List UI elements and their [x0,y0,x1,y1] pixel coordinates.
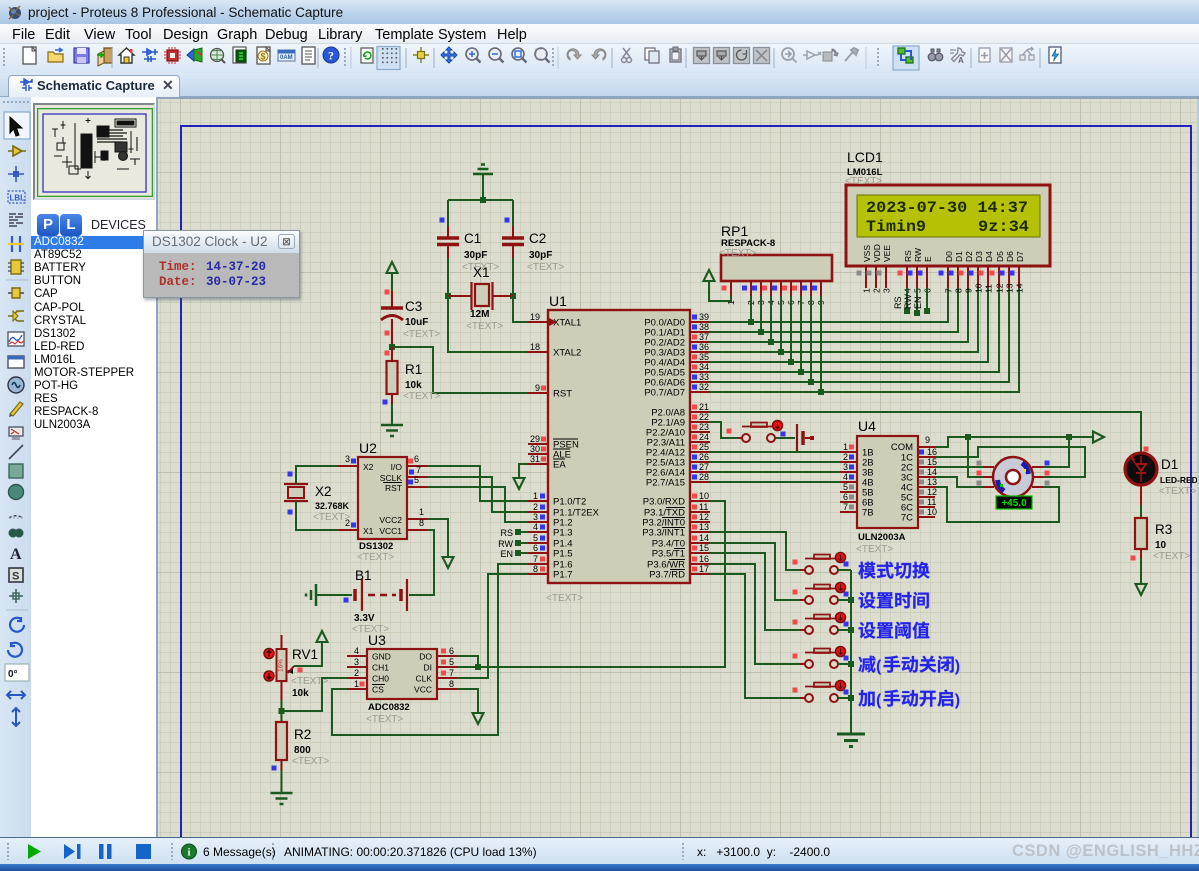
label 设置阈值 [859,622,930,639]
wire U1 P3.6 to button 4 [710,564,800,664]
svg-text:26: 26 [699,452,709,462]
svg-text:VCC2: VCC2 [379,515,402,525]
svg-text:13: 13 [1005,283,1015,293]
wire U2 I/O to U1 P1.0 [427,466,528,501]
svg-text:10: 10 [1155,540,1167,551]
svg-text:38: 38 [699,322,709,332]
wire C2 bottom to X1 row [512,258,514,296]
wire RV1 bottom node [281,700,283,722]
svg-text:P3.3/INT1: P3.3/INT1 [642,528,685,539]
svg-text:16: 16 [927,447,937,457]
svg-text:ULN2003A: ULN2003A [858,532,906,543]
wire crystal to U2.X1 [296,501,338,530]
svg-text:C3: C3 [405,299,422,314]
wire U3 DI to U1 P3.0 [457,501,725,667]
svg-text:36: 36 [699,342,709,352]
svg-text:0°: 0° [8,669,18,680]
wire P0.0 U1 to LCD D0 [710,288,948,322]
svg-text:U3: U3 [368,632,386,648]
object selector panel [31,97,158,837]
svg-text:RST: RST [553,389,572,400]
svg-text:R1: R1 [405,362,422,377]
svg-text:C1: C1 [464,231,481,246]
svg-text:3: 3 [882,288,892,293]
wire buttons common to ground [850,570,852,734]
capacitor C1 [437,218,499,274]
svg-text:$: $ [260,52,265,62]
node button common [848,627,854,633]
node RP1 pin4 drop [770,296,772,342]
svg-text:2: 2 [533,502,538,512]
node DO/DI [475,664,481,670]
arrow terminal COM rail [1093,432,1104,443]
node X1 left [445,293,451,299]
svg-text:X1: X1 [473,265,490,280]
svg-text:39: 39 [699,312,709,322]
svg-text:EN: EN [500,549,513,559]
svg-text:B1: B1 [355,568,372,583]
net RS stub (U1 P1.3) [500,528,528,538]
svg-text:12: 12 [995,283,1005,293]
svg-text:6: 6 [449,646,454,656]
svg-text:X1: X1 [363,526,374,536]
svg-text:32: 32 [699,382,709,392]
driver U4 (ULN2003A) [840,418,937,555]
sheet border [181,126,1191,871]
ground arrow U3 VCC [457,689,484,724]
wire X1 left to XTAL2 [448,296,528,352]
wire U3 CS to U1 P1.6 [332,564,528,735]
svg-text:P0.7/AD7: P0.7/AD7 [644,388,685,399]
svg-text:33: 33 [699,372,709,382]
svg-text:29: 29 [530,434,540,444]
svg-text:<TEXT>: <TEXT> [403,391,440,402]
svg-text:<TEXT>: <TEXT> [313,512,350,523]
svg-text:X2: X2 [363,462,374,472]
svg-text:RW: RW [498,539,513,549]
svg-text:4: 4 [843,472,848,482]
svg-text:11: 11 [984,284,994,293]
svg-text:5: 5 [414,475,419,485]
svg-text:10k: 10k [292,688,309,699]
toolbar [0,44,1199,73]
svg-text:2: 2 [354,668,359,678]
wire U4 1C to motor right-mid [935,447,1085,477]
svg-text:S: S [12,571,19,583]
power arrow RV1 wiper [294,631,328,666]
wire P0.4 U1 to LCD D4 [710,288,988,362]
svg-text:37: 37 [699,332,709,342]
wire U4 2C to motor left-top [935,466,983,468]
svg-text:1: 1 [862,288,872,293]
node X1 right [510,293,516,299]
svg-text:RS: RS [903,250,913,262]
svg-text:0AM: 0AM [280,55,293,61]
node RP1 pin7 drop [800,296,802,372]
wire P0.6 U1 to LCD D6 [710,288,1009,382]
svg-text:17: 17 [699,564,709,574]
node COM rail A [965,434,971,440]
svg-text:25: 25 [699,442,709,452]
svg-text:DO: DO [419,652,432,662]
svg-text:8: 8 [533,564,538,574]
wire U2 VCC1 to battery [409,530,434,595]
svg-text:VSS: VSS [862,245,872,262]
svg-text:30pF: 30pF [529,250,552,261]
svg-text:P1.7: P1.7 [553,570,573,581]
svg-text:CS: CS [372,685,384,695]
svg-text:RW: RW [913,248,923,262]
wire node to U3 CH0 [282,678,348,711]
svg-text:6: 6 [843,492,848,502]
svg-text:2: 2 [872,288,882,293]
svg-text:30: 30 [530,444,540,454]
resistor R1 10k [383,347,441,405]
svg-text:7C: 7C [901,513,913,524]
svg-text:I/O: I/O [391,462,403,472]
node RP1 pin6 drop [790,296,792,362]
wire U1 P3.3 to button 1 [710,532,800,570]
svg-text:5: 5 [449,657,454,667]
svg-text:7: 7 [533,554,538,564]
svg-text:CH1: CH1 [372,663,389,673]
svg-text:RST: RST [385,483,402,493]
wire button 5 to common [838,697,851,699]
capacitor cell (right of P2.1 button) [775,424,814,452]
svg-text:10uF: 10uF [405,317,428,328]
op-amp U1 (AT89C52 MCU) [528,293,710,604]
pot RV1 10k [264,635,328,700]
wire U4 3C to motor left-bottom [935,477,983,487]
wire U1 P2.6 to U4 3B [710,471,840,473]
svg-text:12: 12 [699,512,709,522]
node RP1 pin8 drop [810,296,812,382]
svg-text:9: 9 [964,288,974,293]
motor M (stepper) [977,457,1050,509]
ground (buttons common) [837,734,865,747]
svg-text:C2: C2 [529,231,546,246]
svg-text:24: 24 [699,432,709,442]
wire U3 DO drop [457,656,478,667]
svg-text:CLK: CLK [415,674,432,684]
power arrow RP1 pin1 [704,270,732,301]
svg-text:<TEXT>: <TEXT> [546,593,583,604]
wire U4 COM rail [935,437,1093,447]
svg-text:P2.7/A15: P2.7/A15 [646,478,685,489]
svg-text:14: 14 [1015,283,1025,293]
svg-text:?: ? [328,49,334,63]
wire U1 P3.5 to button 3 [710,553,800,630]
svg-text:RV1: RV1 [292,647,318,662]
ground (below R2) [271,792,293,795]
label 加(手动开启) [858,690,960,709]
svg-text:P1.5: P1.5 [553,549,573,560]
svg-text:10k: 10k [405,380,422,391]
svg-text:P1.0/T2: P1.0/T2 [553,497,586,508]
svg-text:16%: 16% [278,659,285,672]
button 5 (加(手动开启)) [793,681,849,703]
svg-text:8: 8 [954,288,964,293]
svg-text:23: 23 [699,422,709,432]
svg-text:8: 8 [419,518,424,528]
svg-text:15: 15 [927,457,937,467]
svg-text:Timin9: Timin9 [866,218,926,236]
transistor U2 (DS1302 RTC) [338,440,427,563]
net RW wire below LCD [903,288,920,316]
node RV1/R2 [279,708,285,714]
svg-text:27: 27 [699,462,709,472]
svg-text:P3.7/RD: P3.7/RD [649,570,685,581]
node RP1 pin5 drop [780,296,782,352]
svg-text:(: ( [876,658,882,675]
wire U3 CLK to U1 P1.7 [457,574,528,678]
svg-text:DS1302: DS1302 [359,541,393,552]
svg-text:A: A [958,56,964,65]
ground arrow below R3 [1136,584,1147,595]
svg-text:R2: R2 [294,727,311,742]
wire D1 to R3 [1140,485,1142,505]
svg-text:16: 16 [699,554,709,564]
tab bar [0,73,1199,97]
resistor pack RP1 (RESPACK-8) [719,223,832,305]
crystal X1 12M [448,265,513,332]
svg-text:COM: COM [891,442,913,453]
wire R2 to ground [281,770,283,793]
svg-text:5: 5 [843,482,848,492]
node C3/R1 [389,344,395,350]
title bar [0,0,1199,24]
svg-text:18: 18 [530,342,540,352]
svg-text:P3.5/T1: P3.5/T1 [652,549,685,560]
svg-text:7: 7 [449,668,454,678]
menu bar [0,24,1199,44]
wire button 2 to common [838,599,851,601]
wire P0.3 U1 to LCD D3 [710,288,978,352]
svg-text:12: 12 [927,487,937,497]
node button common [848,661,854,667]
svg-text:<TEXT>: <TEXT> [466,321,503,332]
node RP1 pin2 drop [750,296,752,322]
svg-text:3: 3 [843,462,848,472]
node RP1 pin3 drop [760,296,762,332]
wire C1 top [447,200,449,226]
svg-text:2: 2 [843,452,848,462]
net RS wire below LCD [893,288,910,314]
svg-text:7B: 7B [862,508,874,519]
svg-text:ADC0832: ADC0832 [368,702,410,713]
node COM rail B [1066,434,1072,440]
svg-text:21: 21 [699,402,709,412]
svg-text:<TEXT>: <TEXT> [366,714,403,725]
svg-text:10: 10 [927,507,937,517]
svg-text:3.3V: 3.3V [354,613,375,624]
wire COM to motor right-top [1043,437,1069,467]
svg-text:35: 35 [699,352,709,362]
svg-text:VCC1: VCC1 [379,526,402,536]
svg-text:D6: D6 [1005,251,1015,262]
svg-text:19: 19 [530,312,540,322]
svg-text:11: 11 [699,502,708,512]
svg-text:34: 34 [699,362,709,372]
svg-text:<TEXT>: <TEXT> [357,552,394,563]
power arrow (C3 top) [387,262,398,291]
svg-text:SCLK: SCLK [380,473,403,483]
svg-text:3: 3 [345,454,350,464]
svg-text:6: 6 [533,543,538,553]
wire P0.5 U1 to LCD D5 [710,288,999,372]
svg-text:1: 1 [354,679,359,689]
button 4 (减(手动关闭)) [793,647,849,669]
svg-text:XTAL2: XTAL2 [553,348,581,359]
svg-text:<TEXT>: <TEXT> [292,756,329,767]
svg-text:31: 31 [530,454,540,464]
svg-text:LED-RED: LED-RED [1160,475,1198,485]
wire R3 to ground arrow [1140,558,1142,584]
svg-text:1: 1 [419,507,424,517]
svg-text:RW: RW [903,294,913,309]
resistor R3 10 [1131,518,1191,562]
button 1 (模式切换) [793,553,849,575]
svg-text:10: 10 [974,283,984,293]
svg-text:EN: EN [913,296,923,309]
wire COM to motor left-mid [968,437,983,477]
svg-text:A: A [10,546,22,563]
svg-text:28: 28 [699,472,709,482]
editor canvas [158,97,1199,837]
wire U1 P2.5 to U4 2B [710,461,840,463]
svg-text:9: 9 [535,383,540,393]
svg-text:<TEXT>: <TEXT> [527,262,564,273]
wire P0.2 U1 to LCD D2 [710,288,968,342]
svg-text:D5: D5 [995,251,1005,262]
svg-text:30pF: 30pF [464,250,487,261]
svg-text:XTAL1: XTAL1 [553,318,581,329]
svg-text:GND: GND [372,652,391,662]
label 减(手动关闭) [858,656,960,675]
svg-text:EA: EA [553,460,566,471]
left tool strip [0,97,31,837]
svg-text:14: 14 [699,533,709,543]
wire U1 P2.7 to U4 4B [710,481,840,483]
svg-text:8: 8 [449,679,454,689]
crystal X2 32.768K [284,472,350,524]
svg-text:DI: DI [424,663,433,673]
wire U1 P3.4 to button 2 [710,543,800,600]
wire U2.X2 to crystal [296,466,338,484]
wire U2 SCLK to U1 P1.1 [427,477,528,512]
svg-text:3: 3 [533,512,538,522]
svg-text:13: 13 [927,477,937,487]
capacitor C2 [502,218,564,274]
svg-text:): ) [955,692,960,709]
svg-text:D0: D0 [944,251,954,262]
svg-text:22: 22 [699,412,709,422]
ground (below R1) [381,424,403,427]
svg-text:11: 11 [927,497,936,507]
svg-text:D4: D4 [984,251,994,262]
svg-text:P3.0/RXD: P3.0/RXD [643,497,685,508]
canvas inner shadow [158,97,1199,99]
wire C1 bottom to X1 row [447,258,449,296]
svg-text:<TEXT>: <TEXT> [1159,486,1196,497]
wire U4 4C to motor right-bottom [935,487,1059,522]
svg-text:6: 6 [414,454,419,464]
svg-text:VEE: VEE [882,245,892,262]
svg-text:15: 15 [699,543,709,553]
wire U1 P3.7 to button 5 [710,574,800,698]
svg-text:<TEXT>: <TEXT> [856,544,893,555]
ground arrow EA (pin31) [514,464,529,489]
svg-text:7: 7 [944,288,954,293]
svg-text:7: 7 [416,465,421,475]
svg-text:<TEXT>: <TEXT> [403,329,440,340]
node top rail junction [480,197,486,203]
svg-text:+45.0: +45.0 [1001,498,1027,509]
svg-text:(: ( [876,692,882,709]
DS1302 popup [143,230,300,298]
wire U1 P2.0 to D1 [710,412,1141,452]
wire U2 RST to U1 P1.2 [427,487,528,522]
ground arrow U2 VCC2 [427,519,454,568]
wire X1 right to XTAL1 [513,296,528,322]
LCD LCD1 (LM016L) [845,149,1050,293]
svg-text:RS: RS [500,528,513,538]
ground top (above C1/C2) [473,165,493,201]
wire P0.7 U1 to LCD D7 [710,288,1019,392]
net EN stub (U1 P1.5) [500,549,528,559]
svg-text:CH0: CH0 [372,674,389,684]
svg-text:E: E [923,256,933,262]
svg-text:D2: D2 [964,251,974,262]
label 模式切换 [858,562,929,579]
svg-text:<TEXT>: <TEXT> [845,176,882,187]
svg-text:VDD: VDD [872,244,882,262]
svg-text:13: 13 [699,522,709,532]
svg-text:32.768K: 32.768K [315,501,350,511]
net EN wire below LCD [913,288,930,314]
button 3 (设置阈值) [793,613,849,635]
svg-text:D1: D1 [1161,457,1178,472]
svg-text:VCC: VCC [414,685,432,695]
svg-text:RP1: RP1 [721,223,748,239]
label 设置时间 [859,592,929,609]
svg-text:2023-07-30 14:37: 2023-07-30 14:37 [866,199,1028,217]
wire R1 to ground [391,404,393,425]
svg-text:9: 9 [925,435,930,445]
wire button 1 to common [838,569,851,571]
svg-text:U1: U1 [549,293,567,309]
svg-text:P1.3: P1.3 [553,528,573,539]
svg-text:X2: X2 [315,484,332,499]
svg-text:1: 1 [843,442,848,452]
svg-text:U4: U4 [858,418,876,434]
svg-text:): ) [955,658,960,675]
battery B1 3.3V [306,568,407,635]
svg-text:4: 4 [533,522,538,532]
wire U1 P2.1 to button [710,422,737,438]
svg-text:LCD1: LCD1 [847,149,883,165]
svg-text:5: 5 [533,533,538,543]
svg-text:<TEXT>: <TEXT> [719,248,756,259]
node RP1 pin9 drop [820,296,822,392]
svg-text:3: 3 [354,657,359,667]
svg-text:<TEXT>: <TEXT> [1153,551,1190,562]
status bar [0,837,1199,864]
svg-text:12M: 12M [470,309,489,320]
net RW stub (U1 P1.4) [498,539,528,549]
svg-text:14: 14 [927,467,937,477]
node button common [848,695,854,701]
